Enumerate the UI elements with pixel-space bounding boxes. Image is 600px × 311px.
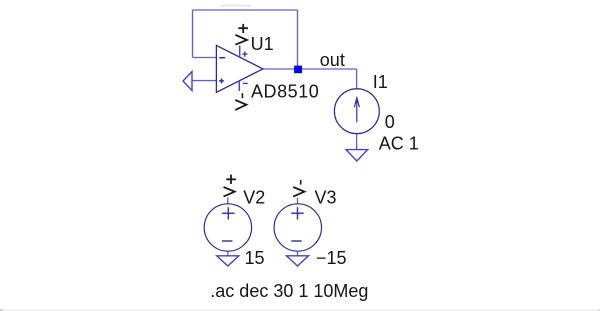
svg-text:0: 0 xyxy=(385,112,395,132)
wire V3 top lead xyxy=(297,198,299,205)
op-amp non-inverting input plus mark xyxy=(219,79,224,84)
op-amp V- pin stub xyxy=(238,81,240,91)
flag V+ label plus xyxy=(238,24,248,33)
ground below V2 xyxy=(217,256,239,266)
flag + label above V2 xyxy=(226,175,236,184)
voltage source V3 minus mark xyxy=(291,240,302,242)
voltage source V3 circle xyxy=(274,204,321,251)
faint artifact above feedback rail xyxy=(221,4,251,6)
wire feedback top rail xyxy=(193,9,298,11)
wire V2 bottom lead xyxy=(227,252,229,256)
current source I1 arrow xyxy=(354,98,359,123)
node out junction square xyxy=(294,66,302,74)
svg-text:−15: −15 xyxy=(316,248,347,268)
flag V- chevron at op-amp bottom xyxy=(235,100,246,110)
bottom faint scrollbar strip xyxy=(0,309,600,311)
wire V3 bottom lead xyxy=(297,252,299,256)
voltage source V2 circle xyxy=(204,204,251,251)
svg-text:AC 1: AC 1 xyxy=(379,134,419,154)
svg-text:U1: U1 xyxy=(251,34,274,54)
flag V+ chevron at op-amp top xyxy=(235,35,247,45)
svg-text:.ac dec 30 1 10Meg: .ac dec 30 1 10Meg xyxy=(210,281,368,301)
op-amp V+ plus mark xyxy=(242,52,247,57)
ground below V3 xyxy=(287,256,309,266)
current source I1 circle xyxy=(334,89,379,134)
flag - label above V3 xyxy=(300,180,302,185)
voltage source V2 minus mark xyxy=(222,240,233,242)
wire V2 top lead xyxy=(227,198,229,205)
wire ground to non-inverting input xyxy=(192,80,217,82)
op-amp inverting input minus mark xyxy=(219,57,225,59)
op-amp V- minus mark xyxy=(243,82,248,84)
op-amp V+ pin stub xyxy=(239,46,241,58)
flag - chevron above V3 xyxy=(293,187,304,197)
flag V- label minus xyxy=(241,93,243,98)
wire I1 bottom lead xyxy=(356,134,358,150)
svg-text:AD8510: AD8510 xyxy=(251,82,319,102)
wire feedback left vertical xyxy=(192,10,194,58)
wire output to node out xyxy=(263,68,357,70)
svg-text:V2: V2 xyxy=(243,188,265,208)
ground at non-inverting input (rotated left) xyxy=(183,72,192,91)
svg-text:15: 15 xyxy=(245,248,265,268)
svg-text:I1: I1 xyxy=(373,72,388,92)
svg-text:out: out xyxy=(320,50,345,70)
voltage source V2 plus mark xyxy=(222,207,234,219)
wire out node down to I1 xyxy=(356,69,358,90)
flag + chevron above V2 xyxy=(224,187,235,197)
ground below I1 xyxy=(346,150,368,161)
wire to inverting input xyxy=(193,57,218,59)
svg-text:V3: V3 xyxy=(315,188,337,208)
wire feedback right vertical xyxy=(297,10,299,69)
voltage source V3 plus mark xyxy=(291,207,303,219)
op-amp U1 triangle xyxy=(216,45,263,92)
